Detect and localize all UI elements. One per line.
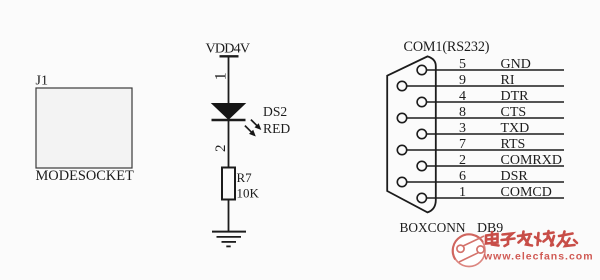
svg-text:COMRXD: COMRXD <box>501 153 562 168</box>
svg-text:DS2: DS2 <box>263 104 287 119</box>
wire pin9 row <box>407 85 564 87</box>
pin circle 8 <box>397 113 406 122</box>
LED DS2 cathode bar <box>212 119 246 121</box>
svg-text:DB9: DB9 <box>477 221 503 236</box>
svg-text:8: 8 <box>459 105 466 120</box>
connector U? DB9 body outline <box>387 56 436 212</box>
LED DS2 triangle <box>212 104 245 120</box>
wire pin2 row <box>427 165 565 167</box>
svg-text:10K: 10K <box>237 186 260 201</box>
LED DS2 emission arrow upper <box>251 120 261 130</box>
svg-text:1: 1 <box>213 72 230 80</box>
pin circle 3 <box>417 129 426 138</box>
svg-text:COM1(RS232): COM1(RS232) <box>404 39 490 55</box>
watermark chinese text dian <box>486 232 499 246</box>
svg-text:9: 9 <box>459 73 466 88</box>
svg-text:COMCD: COMCD <box>501 185 552 200</box>
svg-text:6: 6 <box>459 169 466 184</box>
wire pin5 row <box>427 69 565 71</box>
svg-text:VDD4V: VDD4V <box>206 41 251 57</box>
wire VDD4V bar to LED anode <box>228 56 230 104</box>
pin circle 6 <box>397 177 406 186</box>
watermark chinese text you <box>558 232 578 247</box>
wire pin7 row <box>407 149 564 151</box>
svg-text:5: 5 <box>459 57 466 72</box>
svg-text:www.elecfans.com: www.elecfans.com <box>483 251 594 263</box>
connector J1 body <box>36 88 132 168</box>
svg-text:4: 4 <box>459 89 466 104</box>
svg-text:BOXCONN: BOXCONN <box>400 220 466 235</box>
wire pin6 row <box>407 181 564 183</box>
svg-text:DTR: DTR <box>501 89 530 104</box>
ground symbol <box>212 232 246 247</box>
resistor R7 body <box>222 168 235 200</box>
wire LED cathode to resistor R7 <box>228 120 230 168</box>
svg-text:CTS: CTS <box>501 105 527 120</box>
LED DS2 emission arrow lower <box>245 126 256 137</box>
watermark chinese text zi <box>502 234 515 247</box>
wire pin4 row <box>427 101 565 103</box>
svg-text:7: 7 <box>459 137 466 152</box>
watermark logo circle <box>453 234 485 266</box>
svg-text:DSR: DSR <box>501 169 529 184</box>
pin circle 9 <box>397 81 406 90</box>
pin circle 2 <box>417 161 426 170</box>
svg-text:RI: RI <box>501 73 515 88</box>
svg-text:1: 1 <box>459 185 466 200</box>
svg-text:3: 3 <box>459 121 466 136</box>
svg-text:RTS: RTS <box>501 137 526 152</box>
pin circle 1 <box>417 193 426 202</box>
pin circle 4 <box>417 97 426 106</box>
pin circle 7 <box>397 145 406 154</box>
svg-text:2: 2 <box>459 153 466 168</box>
svg-text:2: 2 <box>213 145 229 153</box>
svg-text:MODESOCKET: MODESOCKET <box>36 168 135 184</box>
svg-text:TXD: TXD <box>501 121 530 136</box>
watermark chinese text shao <box>535 231 554 246</box>
wire pin1 row <box>427 197 565 199</box>
wire pin8 row <box>407 117 564 119</box>
svg-text:GND: GND <box>501 57 531 72</box>
svg-text:RED: RED <box>263 121 290 136</box>
wire pin3 row <box>427 133 565 135</box>
wire resistor R7 to ground <box>228 200 230 232</box>
pin circle 5 <box>417 65 426 74</box>
svg-text:J1: J1 <box>36 74 48 89</box>
svg-text:R7: R7 <box>237 170 253 185</box>
power symbol VDD4V bar <box>220 55 239 57</box>
watermark chinese text fa <box>518 232 532 246</box>
